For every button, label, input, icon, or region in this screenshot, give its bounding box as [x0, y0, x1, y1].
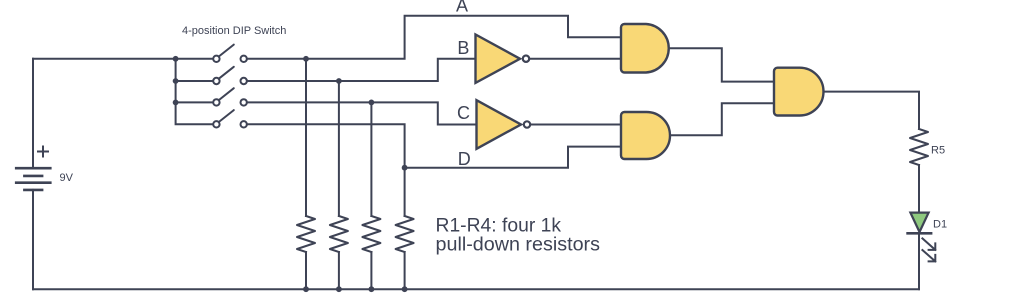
wire R4 drop [404, 168, 406, 216]
node row3 R3 junction [369, 100, 375, 106]
wire AND3 output to R5 [824, 92, 920, 129]
resistor R1 [297, 216, 315, 252]
wire ground rail [33, 288, 919, 290]
svg-text:A: A [456, 0, 468, 15]
wire row2 switch to inverter B [247, 59, 476, 81]
wire battery top to switch bus [33, 58, 176, 60]
node R1 ground [303, 286, 309, 292]
svg-text:9V: 9V [60, 172, 74, 184]
wire R1 to ground rail [305, 252, 307, 289]
AND gate U5 [774, 68, 823, 116]
resistor R2 [330, 216, 348, 252]
node bus row3 [173, 100, 179, 106]
wire node D to AND2 input [405, 147, 621, 168]
node bus row1 [173, 56, 179, 62]
wire inverter C output to AND2 [531, 124, 621, 126]
node row2 R2 junction [336, 78, 342, 84]
svg-text:D1: D1 [933, 219, 947, 231]
wire R2 to ground rail [338, 252, 340, 289]
wire inverter B output to AND1 [530, 58, 621, 60]
wire R4 to ground rail [404, 252, 406, 289]
wire row3 switch to inverter C [247, 102, 477, 124]
node R2 ground [336, 286, 342, 292]
switch SW1 [213, 45, 247, 62]
AND gate U4 [621, 112, 670, 159]
wire row1 switch to node A [247, 16, 621, 59]
wire R5 to LED [918, 165, 920, 213]
wire LED to ground rail [918, 233, 920, 289]
wire R2 drop [338, 81, 340, 216]
svg-text:C: C [457, 103, 470, 123]
wire row4 switch to node D [247, 124, 405, 167]
resistor R4 [396, 216, 414, 252]
wire AND1 output to AND3 [670, 48, 774, 81]
node row1 R1 junction [303, 56, 309, 62]
AND gate U3 [621, 24, 669, 73]
wire R3 to ground rail [370, 252, 372, 289]
node R3 ground [369, 286, 375, 292]
wire switch bus [176, 59, 214, 125]
wire R1 drop [305, 59, 307, 216]
svg-text:4-position DIP Switch: 4-position DIP Switch [182, 25, 286, 37]
resistor R5 [910, 129, 928, 165]
svg-text:pull-down resistors: pull-down resistors [436, 234, 601, 255]
wire bus to switch 1 [176, 58, 214, 60]
svg-text:D: D [458, 149, 471, 169]
inverter U2 (C) [477, 100, 531, 149]
wire AND2 output to AND3 [670, 103, 774, 135]
node R4 ground [402, 286, 408, 292]
node D junction [402, 165, 408, 171]
battery BT1 [16, 59, 50, 289]
svg-text:B: B [457, 38, 469, 58]
LED D1 [908, 213, 936, 262]
switch SW2 [213, 67, 247, 84]
resistor R3 [362, 216, 380, 252]
switch SW4 [213, 110, 247, 127]
switch SW3 [213, 88, 247, 105]
node bus row2 [173, 78, 179, 84]
svg-text:R5: R5 [931, 145, 945, 157]
inverter U1 (B) [476, 35, 530, 83]
wire R3 drop [370, 102, 372, 216]
